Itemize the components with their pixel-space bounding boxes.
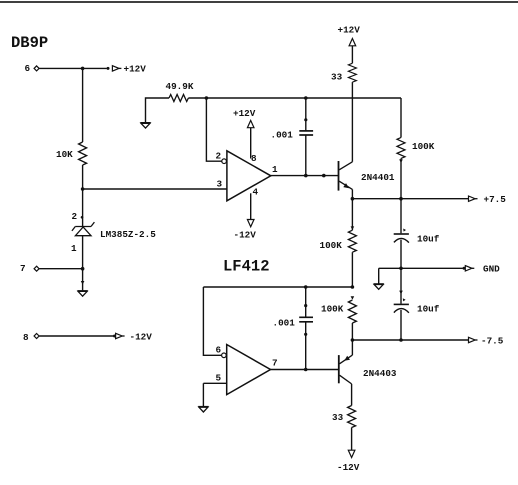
svg-text:10K: 10K (56, 149, 73, 160)
wire +12V to R33a (351, 46, 353, 64)
resistor 100K mid upper (348, 230, 356, 252)
svg-text:.001: .001 (273, 318, 296, 329)
resistor 100K mid lower (348, 300, 356, 323)
svg-text:33: 33 (331, 72, 343, 83)
wire feedback row (203, 286, 352, 288)
svg-text:+7.5: +7.5 (484, 194, 507, 205)
node -7.5 arrow (469, 337, 478, 342)
ground symbol under 49.9K (140, 123, 150, 128)
wire GND rail (379, 267, 463, 269)
wire node to diode (82, 189, 84, 227)
junction capA top (304, 96, 308, 100)
svg-text:-12V: -12V (337, 462, 360, 473)
svg-text:33: 33 (332, 412, 344, 423)
pin 6 connector circle (34, 66, 39, 71)
svg-text:10uf: 10uf (417, 234, 440, 245)
svg-text:-12V: -12V (234, 230, 257, 241)
wire Q2 collector to R33b (351, 384, 353, 406)
svg-text:8: 8 (251, 153, 257, 164)
marker above C4 (399, 291, 403, 295)
svg-text:1: 1 (272, 164, 278, 175)
resistor 33 lower (348, 406, 356, 428)
wire C3 to GND rail (400, 240, 402, 269)
junction 49.9K output (205, 96, 209, 100)
resistor 100K right (397, 138, 405, 159)
wire Q1 emitter to +7.5 rail (351, 189, 353, 198)
transistor Q2 2N4403 (339, 355, 353, 384)
ground symbol under pin7 (77, 291, 87, 296)
junction Q1 emitter (351, 197, 355, 201)
wire 49.9K to right column (188, 97, 401, 99)
wire pin8 row (39, 335, 113, 337)
resistor 33 upper (348, 63, 356, 82)
frame top border line (0, 1, 518, 3)
wire 49.9K ground branch (146, 98, 170, 122)
svg-text:5: 5 (216, 373, 222, 384)
dot on capB lead (304, 304, 307, 307)
resistor 49.9K (169, 95, 188, 102)
svg-text:7: 7 (20, 263, 26, 274)
wire GND to C4 (400, 268, 402, 303)
wire GND branch down (378, 268, 380, 283)
dot on wire above D1 (81, 216, 84, 219)
wire feedback down to pin6 (203, 287, 221, 355)
svg-text:+12V: +12V (233, 108, 256, 119)
wire R33b to -12V (351, 428, 353, 451)
wire 10K to node (82, 165, 84, 189)
-12V supply arrow U1A (247, 220, 254, 227)
wire +7.5 rail (352, 198, 468, 200)
zener diode D1 LM385Z-2.5 (72, 222, 95, 236)
wire Q2 emitter to -7.5 rail (351, 340, 353, 355)
svg-text:+12V: +12V (338, 25, 361, 36)
junction base wire (322, 174, 326, 178)
svg-text:6: 6 (216, 345, 222, 356)
wire diode to pin7 row (82, 236, 84, 269)
junction pin6/10K (81, 67, 85, 71)
-12V supply stem U1A (250, 193, 252, 219)
wire pin6 row (39, 67, 106, 69)
svg-text:-7.5: -7.5 (481, 336, 504, 347)
wire -7.5 rail (352, 339, 468, 341)
marker above R3 (351, 296, 355, 300)
marker on ground stub (81, 281, 85, 285)
ground symbol under pin5 (198, 407, 208, 412)
svg-text:LM385Z-2.5: LM385Z-2.5 (100, 229, 156, 240)
wire R3 to -7.5 rail (351, 323, 353, 340)
svg-text:GND: GND (483, 264, 500, 275)
marker above R2 (351, 226, 355, 230)
wire capA top lead (305, 98, 307, 130)
junction feedback/mid column (351, 285, 355, 289)
junction capB/output (304, 368, 308, 372)
wire down to op-amp pin2 (206, 98, 221, 161)
+12V supply arrow top (349, 39, 356, 46)
junction capA bottom (304, 174, 308, 178)
wire U1B output to Q2 base (271, 369, 339, 371)
wire +7.5 to C3 (400, 199, 402, 234)
wire capB bottom lead (305, 322, 307, 369)
wire right column top (400, 98, 402, 138)
wire pin7 row (39, 268, 82, 270)
junction -7.5/right column (399, 338, 403, 342)
wire pin5 (203, 382, 226, 384)
svg-text:49.9K: 49.9K (166, 81, 194, 92)
svg-text:7: 7 (272, 358, 278, 369)
svg-text:+12V: +12V (124, 64, 147, 75)
capacitor .001 upper (299, 131, 313, 135)
svg-text:100K: 100K (321, 304, 344, 315)
wire U1A output to Q1 base (271, 175, 339, 177)
svg-text:8: 8 (23, 332, 29, 343)
ground symbol GND rail (374, 284, 384, 289)
svg-text:-12V: -12V (130, 332, 153, 343)
svg-text:2N4401: 2N4401 (361, 172, 395, 183)
svg-text:2N4403: 2N4403 (363, 368, 397, 379)
pin 2 inverting bubble (222, 159, 227, 164)
svg-text:100K: 100K (412, 141, 435, 152)
op-amp U1B LF412 triangle (227, 345, 271, 395)
+12V supply arrow U1A (247, 120, 254, 127)
svg-text:DB9P: DB9P (11, 34, 48, 52)
svg-text:LF412: LF412 (223, 258, 270, 276)
wire left column upper (82, 68, 84, 142)
dot below capB (304, 333, 307, 336)
marker below 100K right (399, 159, 403, 163)
svg-text:100K: 100K (320, 240, 343, 251)
wire 100K right to +7.5 (400, 159, 402, 199)
svg-text:1: 1 (71, 243, 77, 254)
node GND arrow (463, 266, 475, 271)
wire pin3 row to op-amp (83, 188, 227, 190)
capacitor C4 10uf (394, 298, 409, 313)
svg-text:6: 6 (25, 63, 31, 74)
svg-text:4: 4 (253, 187, 259, 198)
node +12V arrow (107, 66, 122, 71)
capacitor .001 lower (299, 317, 313, 322)
transistor Q1 2N4401 (339, 161, 353, 191)
wire pin7 to ground (82, 269, 84, 291)
wire capA bottom lead (305, 136, 307, 176)
wire capB top lead (305, 287, 307, 317)
svg-text:10uf: 10uf (417, 304, 440, 315)
junction +7.5/right column (399, 197, 403, 201)
pin 6 inverting bubble (222, 353, 227, 358)
wire C4 to -7.5 rail (400, 310, 402, 340)
svg-text:2: 2 (72, 211, 78, 222)
node +7.5 arrow (469, 196, 478, 201)
wire R33a to Q1 collector (351, 82, 353, 162)
junction pin7 (81, 267, 85, 271)
-12V supply arrow bottom (348, 450, 355, 457)
wire pin5 to ground (202, 383, 204, 406)
capacitor C3 10uf (394, 229, 409, 243)
junction capB top (304, 285, 308, 289)
wire R2 to feedback node (351, 252, 353, 287)
svg-text:3: 3 (217, 179, 223, 190)
pin 8 connector circle (34, 334, 39, 339)
op-amp U1A LF412 triangle (227, 151, 271, 201)
pin 7 connector circle (34, 266, 39, 271)
junction Q2 emitter rail (351, 338, 355, 342)
junction pin3 row (81, 187, 85, 191)
dot on capA lead (304, 118, 307, 121)
svg-text:.001: .001 (271, 130, 294, 141)
resistor 10K (79, 142, 87, 165)
wire mid column +7.5 to R2 (351, 199, 353, 231)
node -12V arrow (113, 333, 125, 338)
+12V supply stem U1A (250, 128, 252, 159)
junction GND/right column (399, 267, 403, 271)
svg-text:2: 2 (216, 151, 222, 162)
